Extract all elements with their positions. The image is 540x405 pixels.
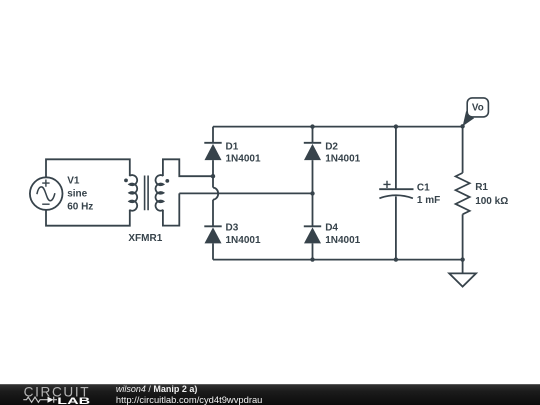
- junction dot D2 top: [310, 124, 314, 128]
- label R1 100 kOhm: [475, 182, 508, 207]
- svg-text:1 mF: 1 mF: [417, 195, 440, 206]
- label D1 1N4001: [226, 141, 261, 164]
- junction dot R1 bottom: [460, 257, 464, 261]
- wire V1 loop top: [46, 159, 130, 177]
- svg-text:wilson4 / Manip 2 a): wilson4 / Manip 2 a): [116, 384, 198, 394]
- junction dot D4 bottom: [310, 257, 314, 261]
- wire V1 loop bottom: [46, 210, 130, 226]
- wire center tap to node B: [179, 192, 311, 194]
- capacitor C1: [379, 181, 413, 199]
- svg-text:LAB: LAB: [57, 396, 90, 405]
- label D3 1N4001: [226, 223, 261, 247]
- logo diode: [48, 397, 54, 403]
- label XFMR1: [128, 233, 162, 244]
- svg-text:1N4001: 1N4001: [226, 154, 261, 165]
- voltage source V1: [30, 177, 63, 210]
- diode D3: [204, 226, 221, 243]
- transformer XFMR1 primary coil: [129, 175, 137, 211]
- logo resistor wire: [23, 397, 57, 403]
- svg-text:1N4001: 1N4001: [325, 154, 360, 165]
- transformer secondary polarity dot: [165, 179, 169, 183]
- node flag Vo: [463, 98, 489, 126]
- diode D1: [204, 143, 221, 160]
- svg-text:60 Hz: 60 Hz: [67, 201, 93, 212]
- svg-text:C1: C1: [417, 183, 430, 194]
- label V1 sine 60 Hz: [67, 175, 93, 212]
- svg-text:sine: sine: [67, 189, 87, 200]
- wire hop over center wire: [213, 188, 218, 200]
- node A junction dot: [211, 174, 215, 178]
- junction dot Vo node: [460, 124, 464, 128]
- diode D2: [304, 143, 321, 160]
- svg-text:XFMR1: XFMR1: [128, 233, 162, 244]
- svg-text:R1: R1: [475, 182, 488, 193]
- svg-text:1N4001: 1N4001: [226, 235, 261, 246]
- svg-text:1N4001: 1N4001: [325, 235, 360, 246]
- junction dot C1 top: [394, 124, 398, 128]
- label D4 1N4001: [325, 223, 360, 247]
- svg-text:D1: D1: [226, 141, 239, 152]
- wire to ground: [462, 260, 464, 274]
- wire C1 column: [395, 127, 397, 260]
- svg-text:Vo: Vo: [472, 103, 484, 114]
- wire left column top: [212, 127, 214, 188]
- wire R1 bottom: [462, 214, 464, 259]
- svg-text:V1: V1: [67, 175, 80, 186]
- svg-text:100 kΩ: 100 kΩ: [475, 196, 508, 207]
- transformer core: [145, 176, 149, 211]
- node B junction dot: [310, 191, 314, 195]
- label C1 1 mF: [417, 183, 440, 206]
- ground: [449, 273, 476, 286]
- svg-text:D4: D4: [325, 223, 338, 234]
- resistor R1: [456, 173, 470, 214]
- svg-text:http://circuitlab.com/cyd4t9wv: http://circuitlab.com/cyd4t9wvpdrau: [116, 395, 263, 405]
- wire R1 column top: [462, 127, 464, 173]
- svg-text:D3: D3: [226, 223, 239, 234]
- wire left column lower: [212, 200, 214, 260]
- junction dot C1 bottom: [394, 257, 398, 261]
- wire middle column: [312, 127, 314, 260]
- footer bar: [0, 384, 540, 405]
- wire top rail: [213, 126, 463, 128]
- wire secondary bottom terminal: [163, 193, 179, 225]
- wire bottom rail: [213, 259, 463, 261]
- label D2 1N4001: [325, 141, 360, 164]
- transformer primary polarity dot: [124, 179, 128, 183]
- svg-text:D2: D2: [325, 141, 338, 152]
- wire secondary top terminal to node A: [163, 159, 212, 176]
- transformer XFMR1 secondary coil: [155, 175, 163, 211]
- diode D4: [304, 226, 321, 243]
